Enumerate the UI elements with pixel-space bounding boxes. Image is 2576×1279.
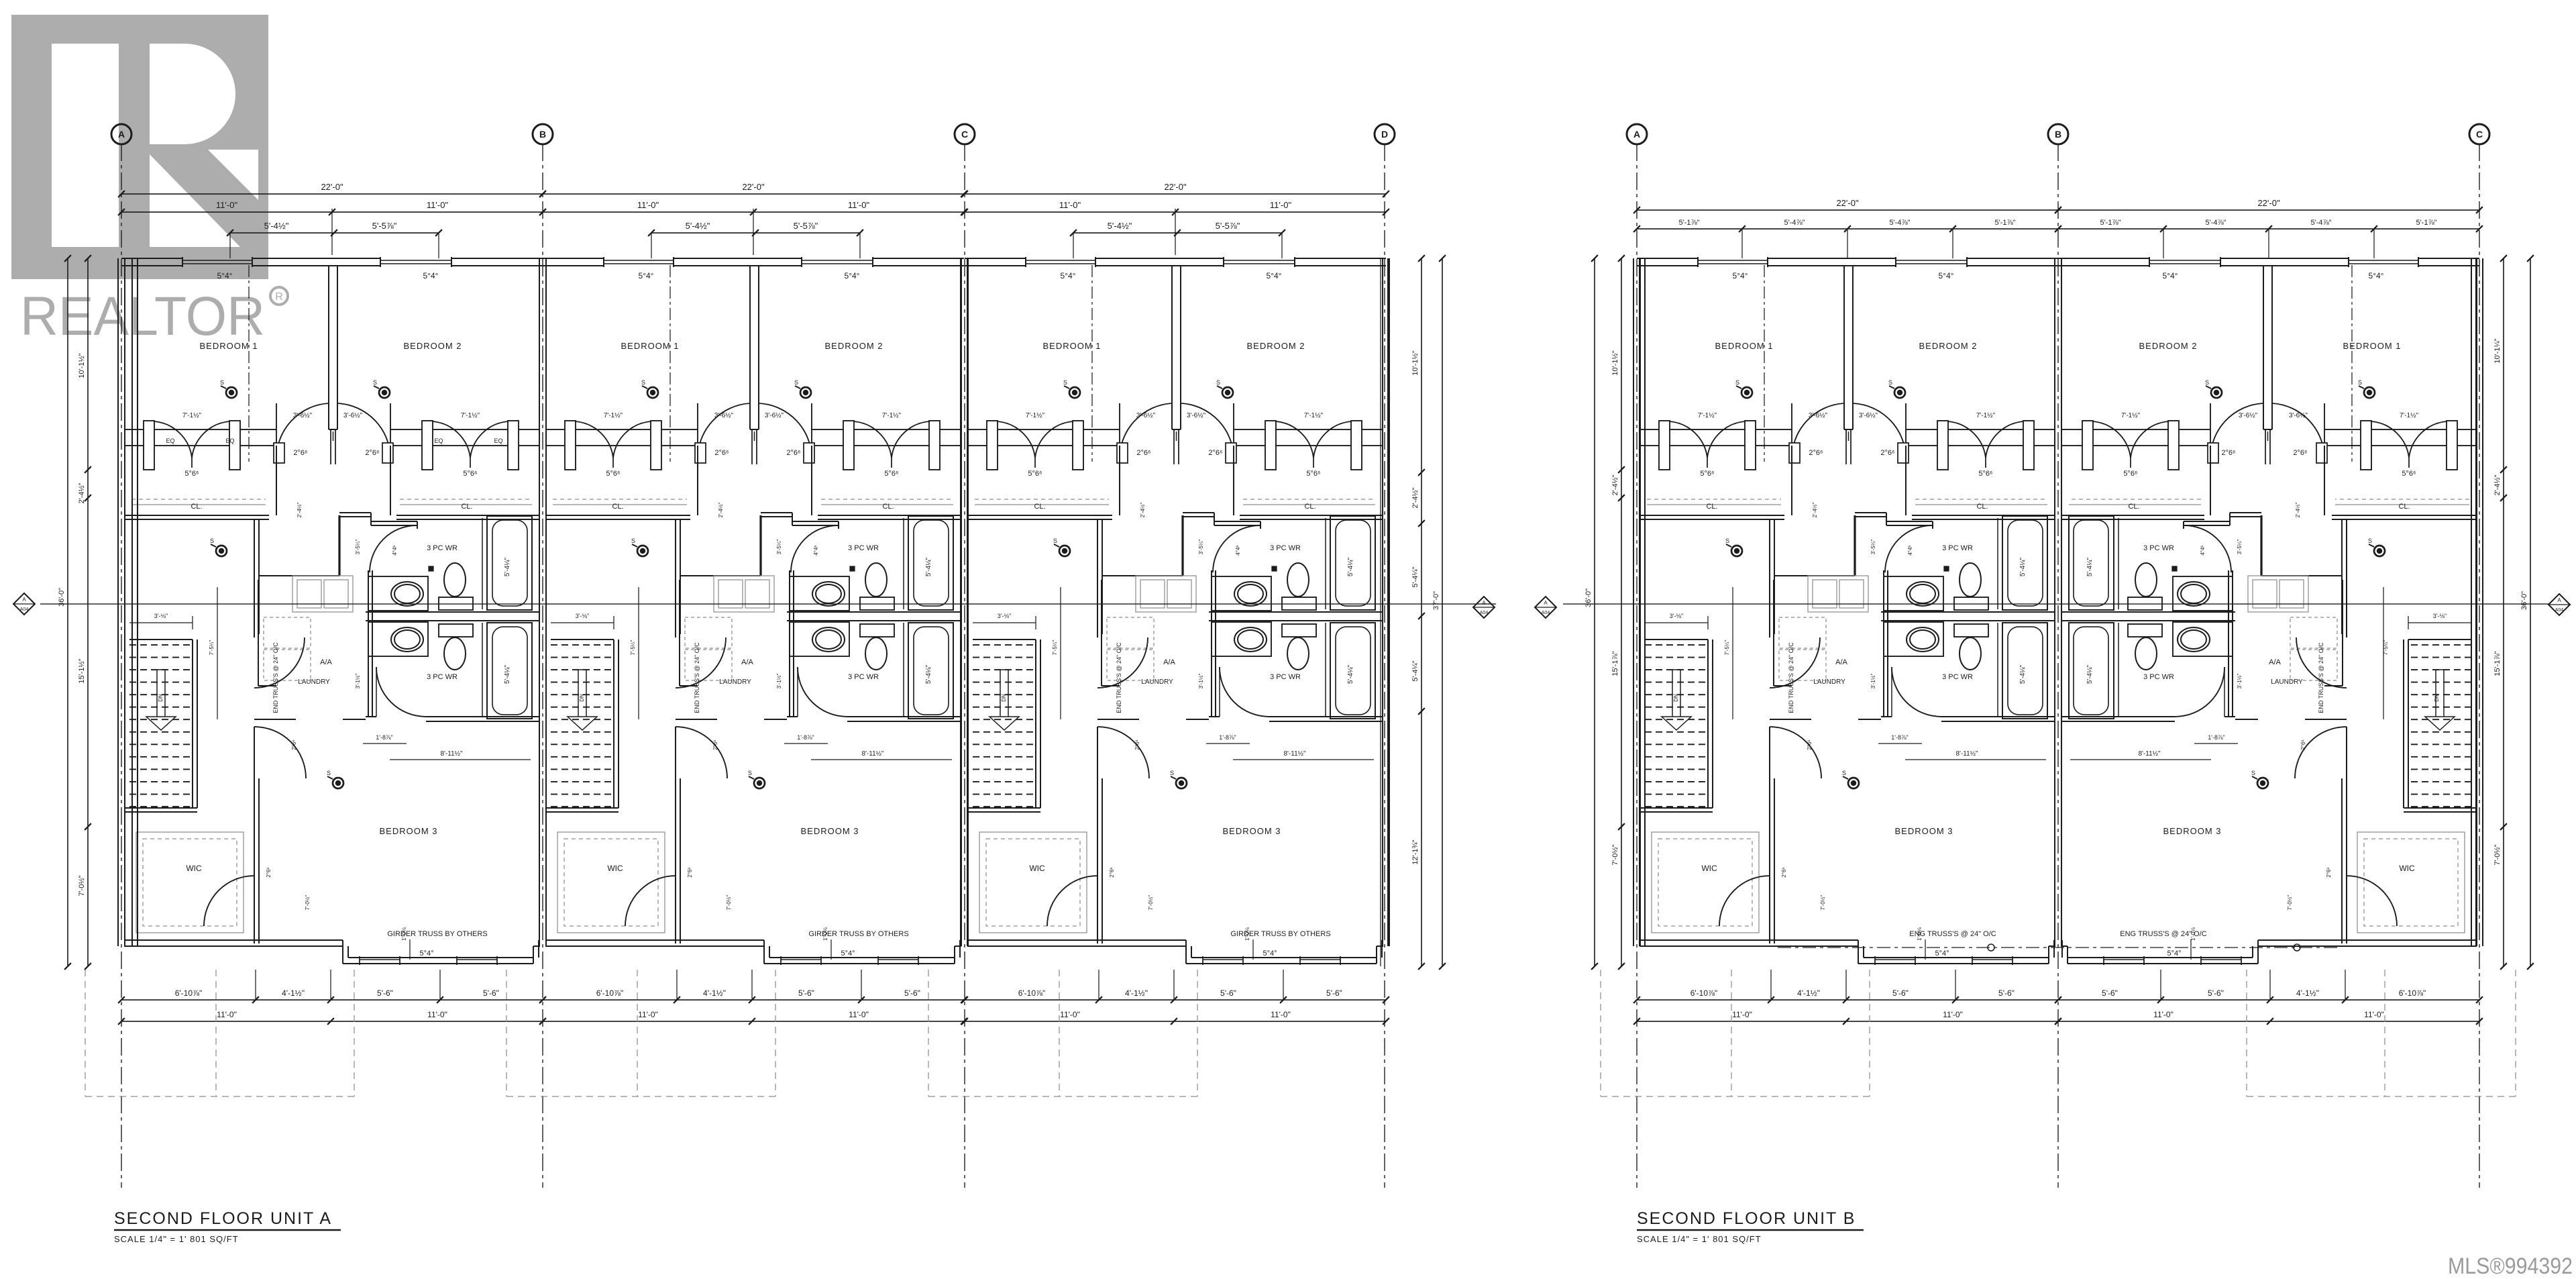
section line plan A (40, 603, 1496, 605)
svg-text:2°6⁶: 2°6⁶ (687, 867, 693, 877)
svg-text:1'-8⅞": 1'-8⅞" (2208, 734, 2224, 741)
svg-text:5'-4½": 5'-4½" (264, 221, 289, 231)
svg-text:11'-0": 11'-0" (848, 200, 870, 210)
svg-text:BEDROOM 3: BEDROOM 3 (2163, 826, 2221, 836)
svg-text:5°6⁶: 5°6⁶ (2402, 470, 2416, 478)
svg-text:5'-4½": 5'-4½" (686, 221, 710, 231)
svg-text:5'-1⅞": 5'-1⅞" (1678, 219, 1699, 227)
svg-text:CL.: CL. (461, 503, 472, 511)
svg-text:WIC: WIC (607, 864, 623, 873)
unit at x=1438 mirror=False (961, 258, 962, 946)
svg-text:5'-4¼": 5'-4¼" (1346, 557, 1354, 576)
svg-text:BEDROOM 3: BEDROOM 3 (800, 826, 859, 836)
svg-text:5'-4¼": 5'-4¼" (2086, 557, 2094, 576)
svg-text:S: S (220, 379, 224, 386)
svg-text:5'-4¼": 5'-4¼" (924, 557, 932, 576)
svg-text:4°4⁶: 4°4⁶ (2200, 545, 2206, 555)
svg-text:S: S (1735, 379, 1739, 386)
svg-text:7'-5¼": 7'-5¼" (209, 640, 215, 656)
svg-text:S: S (2358, 379, 2362, 386)
svg-text:A04: A04 (2555, 608, 2564, 613)
svg-text:A/A: A/A (1163, 658, 1175, 666)
svg-text:11'-0": 11'-0" (2364, 1010, 2384, 1019)
svg-text:2'-4½": 2'-4½" (2295, 503, 2301, 518)
svg-text:11'-0": 11'-0" (637, 200, 659, 210)
svg-text:15'-1⅞": 15'-1⅞" (2493, 651, 2502, 676)
svg-text:A04: A04 (20, 607, 29, 612)
svg-text:5'-6": 5'-6" (798, 988, 814, 998)
unit at x=3696 mirror=True (2475, 258, 2477, 946)
svg-text:S: S (748, 770, 752, 776)
grid bubble B (2048, 124, 2068, 144)
svg-text:1'-8⅞": 1'-8⅞" (1891, 734, 1908, 741)
svg-text:3'-5¼": 3'-5¼" (776, 540, 782, 555)
svg-text:EQ: EQ (434, 438, 443, 444)
svg-text:7'-1½": 7'-1½" (2121, 412, 2141, 419)
svg-text:5'-4¼": 5'-4¼" (1411, 660, 1419, 681)
svg-text:1'-8⅞": 1'-8⅞" (376, 734, 392, 741)
svg-text:3'-6½": 3'-6½" (765, 412, 784, 419)
svg-text:4'-1½": 4'-1½" (1125, 988, 1148, 998)
svg-text:3'-6½": 3'-6½" (1809, 412, 1828, 419)
svg-text:LAUNDRY: LAUNDRY (1141, 678, 1173, 686)
section marker (1535, 597, 1556, 618)
svg-text:A/A: A/A (320, 658, 332, 666)
svg-text:10'-1¼": 10'-1¼" (2493, 338, 2502, 363)
svg-text:5'-4⅞": 5'-4⅞" (1784, 219, 1805, 227)
svg-text:LAUNDRY: LAUNDRY (1813, 678, 1845, 686)
svg-text:5°6⁶: 5°6⁶ (463, 470, 477, 478)
svg-text:3 PC WR: 3 PC WR (848, 544, 879, 552)
svg-text:3 PC WR: 3 PC WR (1942, 544, 1973, 552)
svg-text:MLS®994392: MLS®994392 (2448, 1254, 2573, 1279)
svg-text:5°4°: 5°4° (845, 271, 860, 280)
svg-text:8'-11½": 8'-11½" (2138, 750, 2161, 758)
svg-text:5'-1⅞": 5'-1⅞" (1994, 219, 2015, 227)
svg-text:5'-6": 5'-6" (2102, 988, 2118, 998)
svg-text:7'-1½": 7'-1½" (1304, 412, 1324, 419)
svg-text:5'-4¼": 5'-4¼" (2019, 557, 2027, 576)
svg-text:DN: DN (158, 694, 164, 702)
svg-text:7'-0½": 7'-0½" (2493, 844, 2502, 865)
svg-text:10'-1½": 10'-1½" (1611, 350, 1619, 375)
svg-text:1'-0⅛: 1'-0⅛ (1244, 927, 1250, 941)
svg-text:5°6⁶: 5°6⁶ (1700, 470, 1714, 478)
svg-text:11'-0": 11'-0" (1060, 1010, 1080, 1019)
svg-text:3 PC WR: 3 PC WR (2143, 544, 2174, 552)
svg-text:5'-6": 5'-6" (483, 988, 499, 998)
svg-text:5'-6": 5'-6" (904, 988, 920, 998)
svg-text:37'-0": 37'-0" (1432, 591, 1440, 610)
svg-text:11'-0": 11'-0" (638, 1010, 658, 1019)
svg-text:2'-4½": 2'-4½" (78, 482, 86, 503)
svg-text:5°4°: 5°4° (419, 950, 433, 958)
svg-text:5°6⁶: 5°6⁶ (184, 470, 199, 478)
svg-text:CL.: CL. (2128, 503, 2139, 511)
svg-text:3'-1½": 3'-1½" (776, 674, 782, 689)
svg-text:A: A (1482, 600, 1486, 606)
svg-text:5'-4½": 5'-4½" (1108, 221, 1132, 231)
svg-text:8'-11½": 8'-11½" (1955, 750, 1978, 758)
svg-text:5°4°: 5°4° (1061, 271, 1076, 280)
svg-text:7'-0½": 7'-0½" (1820, 895, 1826, 911)
svg-text:A04: A04 (1542, 611, 1550, 615)
svg-text:A/A: A/A (1835, 658, 1847, 666)
svg-text:2°6⁶: 2°6⁶ (1134, 739, 1140, 750)
svg-text:S: S (1842, 770, 1846, 776)
svg-text:7'-1½": 7'-1½" (1698, 412, 1717, 419)
svg-text:11'-0": 11'-0" (427, 200, 449, 210)
svg-text:5°6⁶: 5°6⁶ (1978, 470, 1992, 478)
svg-text:CL.: CL. (1976, 503, 1988, 511)
svg-text:11'-0": 11'-0" (216, 200, 238, 210)
svg-text:D: D (1381, 129, 1388, 140)
svg-text:36'-0": 36'-0" (2520, 591, 2528, 610)
svg-text:BEDROOM 2: BEDROOM 2 (1919, 341, 1977, 351)
svg-text:22'-0": 22'-0" (742, 182, 765, 192)
grid bubble A (111, 124, 131, 144)
svg-text:S: S (327, 770, 331, 776)
svg-text:LAUNDRY: LAUNDRY (298, 678, 330, 686)
watermark REALTOR logo block (11, 15, 268, 279)
svg-text:S: S (1216, 379, 1220, 386)
svg-text:11'-0": 11'-0" (217, 1010, 237, 1019)
svg-text:7'-5¼": 7'-5¼" (630, 640, 636, 656)
svg-text:10'-1½": 10'-1½" (78, 353, 86, 378)
svg-text:3'-6½": 3'-6½" (2289, 412, 2308, 419)
svg-text:2'-4½": 2'-4½" (718, 503, 724, 518)
svg-text:A/A: A/A (741, 658, 753, 666)
svg-text:5°4°: 5°4° (1935, 950, 1949, 958)
grid bubble D (1375, 124, 1395, 144)
svg-text:4°4⁶: 4°4⁶ (392, 545, 398, 555)
svg-text:3'-⅛": 3'-⅛" (154, 613, 168, 619)
svg-text:DN: DN (2434, 694, 2440, 702)
svg-text:36'-0": 36'-0" (1585, 589, 1593, 607)
svg-text:7'-1½": 7'-1½" (1976, 412, 1996, 419)
svg-text:2°6⁶: 2°6⁶ (786, 449, 800, 457)
unit at x=2440 mirror=False (1633, 258, 1634, 946)
svg-text:5°4°: 5°4° (2167, 950, 2181, 958)
svg-text:3'-1½": 3'-1½" (2237, 674, 2243, 689)
svg-text:3'-6½": 3'-6½" (293, 412, 313, 419)
svg-text:3'-5¼": 3'-5¼" (1198, 540, 1204, 555)
svg-text:S: S (631, 538, 635, 544)
svg-text:5'-4⅞": 5'-4⅞" (2205, 219, 2226, 227)
svg-text:B: B (539, 129, 546, 140)
svg-text:CL.: CL. (612, 503, 623, 511)
svg-text:5°6⁶: 5°6⁶ (1306, 470, 1320, 478)
svg-text:5°4°: 5°4° (1733, 271, 1748, 280)
svg-text:WIC: WIC (1701, 864, 1717, 873)
svg-text:A: A (1633, 129, 1640, 140)
svg-text:3'-⅛": 3'-⅛" (576, 613, 589, 619)
svg-text:S: S (1053, 538, 1057, 544)
svg-text:EQ: EQ (166, 438, 174, 444)
svg-text:2°6⁶: 2°6⁶ (1208, 449, 1222, 457)
svg-text:10'-1½": 10'-1½" (1411, 350, 1419, 375)
svg-text:2°6⁶: 2°6⁶ (2221, 449, 2235, 457)
svg-text:CL.: CL. (191, 503, 202, 511)
svg-text:11'-0": 11'-0" (427, 1010, 447, 1019)
svg-text:C: C (2476, 129, 2483, 140)
svg-text:5'-4¼": 5'-4¼" (1411, 566, 1419, 587)
svg-text:3'-5¼": 3'-5¼" (355, 540, 361, 555)
svg-text:3'-1½": 3'-1½" (355, 674, 361, 689)
svg-text:11'-0": 11'-0" (849, 1010, 869, 1019)
svg-text:2°6⁶: 2°6⁶ (365, 449, 379, 457)
svg-text:END TRUSS'S @ 24" O/C: END TRUSS'S @ 24" O/C (1788, 642, 1794, 713)
svg-text:A04: A04 (1480, 611, 1489, 615)
svg-text:22'-0": 22'-0" (2257, 198, 2280, 208)
svg-text:15'-1½": 15'-1½" (78, 658, 86, 683)
svg-text:11'-0": 11'-0" (1270, 200, 1292, 210)
grid bubble B (533, 124, 553, 144)
svg-text:6'-10⅞": 6'-10⅞" (175, 988, 203, 998)
svg-text:5'-6": 5'-6" (2208, 988, 2224, 998)
svg-text:SCALE 1/4" = 1' 801 SQ/FT: SCALE 1/4" = 1' 801 SQ/FT (114, 1234, 239, 1244)
svg-text:3'-⅛": 3'-⅛" (1670, 613, 1683, 619)
svg-text:BEDROOM 3: BEDROOM 3 (379, 826, 437, 836)
svg-text:2'-4½": 2'-4½" (1812, 503, 1818, 518)
svg-text:7'-0½": 7'-0½" (1611, 844, 1619, 865)
svg-text:5'-4¼": 5'-4¼" (1346, 664, 1354, 684)
svg-text:SCALE 1/4" = 1' 801 SQ/FT: SCALE 1/4" = 1' 801 SQ/FT (1637, 1234, 1762, 1244)
svg-text:5°4°: 5°4° (423, 271, 439, 280)
svg-text:A/A: A/A (2269, 658, 2281, 666)
svg-text:5'-4¼": 5'-4¼" (2086, 664, 2094, 684)
svg-text:5°6⁶: 5°6⁶ (2123, 470, 2137, 478)
svg-text:7'-0½": 7'-0½" (1148, 895, 1154, 911)
svg-text:DN: DN (1673, 694, 1679, 702)
svg-text:5°4°: 5°4° (841, 950, 855, 958)
svg-text:22'-0": 22'-0" (321, 182, 343, 192)
svg-text:2°6⁶: 2°6⁶ (266, 867, 272, 877)
svg-text:4'-1½": 4'-1½" (703, 988, 726, 998)
grid bubble A (1627, 124, 1647, 144)
svg-text:3 PC WR: 3 PC WR (1270, 544, 1301, 552)
svg-text:LAUNDRY: LAUNDRY (2271, 678, 2303, 686)
svg-text:5'-5⅞": 5'-5⅞" (794, 221, 818, 231)
svg-text:S: S (2368, 538, 2372, 544)
unit at x=809 mirror=False (539, 258, 540, 946)
svg-text:11'-0": 11'-0" (1059, 200, 1081, 210)
svg-text:5°6⁶: 5°6⁶ (884, 470, 898, 478)
svg-text:7'-1½": 7'-1½" (461, 412, 480, 419)
svg-text:B: B (2055, 129, 2061, 140)
svg-text:1'-0⅛: 1'-0⅛ (2190, 927, 2196, 941)
svg-text:4°4⁶: 4°4⁶ (1907, 545, 1913, 555)
svg-text:6'-10⅞": 6'-10⅞" (596, 988, 624, 998)
svg-text:3'-6½": 3'-6½" (2239, 412, 2258, 419)
svg-text:S: S (1888, 379, 1892, 386)
svg-text:5°4°: 5°4° (1939, 271, 1954, 280)
svg-text:22'-0": 22'-0" (1164, 182, 1187, 192)
svg-text:2°6⁶: 2°6⁶ (2293, 449, 2307, 457)
svg-text:5'-5⅞": 5'-5⅞" (372, 221, 397, 231)
svg-text:3 PC WR: 3 PC WR (1942, 673, 1973, 681)
svg-text:5'-4⅞": 5'-4⅞" (2310, 219, 2331, 227)
svg-text:5'-4¼": 5'-4¼" (2019, 664, 2027, 684)
svg-text:END TRUSS'S @ 24" O/C: END TRUSS'S @ 24" O/C (272, 642, 279, 713)
svg-text:S: S (794, 379, 798, 386)
svg-text:5°4°: 5°4° (2369, 271, 2384, 280)
svg-text:5'-5⅞": 5'-5⅞" (1216, 221, 1240, 231)
svg-text:1'-8⅞": 1'-8⅞" (1219, 734, 1236, 741)
svg-text:3 PC WR: 3 PC WR (1270, 673, 1301, 681)
svg-text:CL.: CL. (1304, 503, 1316, 511)
svg-text:2'-4½": 2'-4½" (2493, 474, 2502, 495)
svg-text:1'-0⅛: 1'-0⅛ (401, 927, 407, 941)
svg-text:A: A (2557, 597, 2561, 603)
svg-text:2°6⁶: 2°6⁶ (291, 739, 297, 750)
svg-text:8'-11½": 8'-11½" (1283, 750, 1306, 758)
svg-text:4°4⁶: 4°4⁶ (813, 545, 819, 555)
svg-text:S: S (373, 379, 377, 386)
svg-text:2'-4½": 2'-4½" (297, 503, 303, 518)
svg-text:1'-0⅛: 1'-0⅛ (822, 927, 828, 941)
svg-text:3'-6½": 3'-6½" (343, 412, 363, 419)
svg-text:5'-4⅞": 5'-4⅞" (1889, 219, 1910, 227)
svg-text:SECOND FLOOR UNIT A: SECOND FLOOR UNIT A (114, 1209, 332, 1228)
grid bubble C (2469, 124, 2489, 144)
svg-text:CL.: CL. (882, 503, 894, 511)
svg-text:7'-1½": 7'-1½" (604, 412, 623, 419)
svg-text:WIC: WIC (1029, 864, 1045, 873)
svg-text:3'-5¼": 3'-5¼" (1870, 540, 1876, 555)
svg-text:22'-0": 22'-0" (1836, 198, 1859, 208)
svg-text:11'-0": 11'-0" (1943, 1010, 1963, 1019)
svg-text:7'-1½": 7'-1½" (882, 412, 902, 419)
svg-text:EQ: EQ (494, 438, 502, 444)
svg-text:CL.: CL. (2398, 503, 2410, 511)
svg-text:5°6⁶: 5°6⁶ (606, 470, 620, 478)
svg-text:2°6⁶: 2°6⁶ (714, 449, 729, 457)
svg-text:2°6⁶: 2°6⁶ (293, 449, 307, 457)
svg-text:2°6⁶: 2°6⁶ (1807, 739, 1813, 750)
svg-text:11'-0": 11'-0" (2153, 1010, 2173, 1019)
svg-text:5°4°: 5°4° (639, 271, 654, 280)
svg-text:5'-6": 5'-6" (1998, 988, 2015, 998)
svg-text:2'-4½": 2'-4½" (1611, 474, 1619, 495)
svg-text:BEDROOM 3: BEDROOM 3 (1894, 826, 1953, 836)
svg-text:15'-1⅞": 15'-1⅞" (1611, 651, 1619, 676)
svg-text:3'-6½": 3'-6½" (1136, 412, 1156, 419)
svg-text:2°6⁶: 2°6⁶ (1809, 449, 1823, 457)
svg-text:3 PC WR: 3 PC WR (427, 544, 458, 552)
svg-text:2'-4½": 2'-4½" (1411, 487, 1419, 508)
svg-text:R: R (275, 291, 283, 303)
svg-text:4'-1½": 4'-1½" (282, 988, 305, 998)
svg-text:END TRUSS'S @ 24" O/C: END TRUSS'S @ 24" O/C (2318, 642, 2324, 713)
section marker (2548, 594, 2570, 615)
svg-text:5'-6": 5'-6" (1326, 988, 1342, 998)
svg-text:A: A (1544, 600, 1548, 606)
svg-text:C: C (961, 129, 968, 140)
svg-text:7'-0½": 7'-0½" (305, 895, 311, 911)
svg-text:2°6⁶: 2°6⁶ (1880, 449, 1894, 457)
svg-text:5°4°: 5°4° (217, 271, 233, 280)
svg-text:S: S (2251, 770, 2255, 776)
svg-text:BEDROOM 2: BEDROOM 2 (1246, 341, 1305, 351)
svg-text:2°6⁶: 2°6⁶ (1136, 449, 1150, 457)
svg-text:DN: DN (1001, 694, 1007, 702)
svg-text:2°6⁶: 2°6⁶ (1781, 867, 1787, 877)
svg-text:2°6⁶: 2°6⁶ (1109, 867, 1115, 877)
svg-text:BEDROOM 2: BEDROOM 2 (824, 341, 883, 351)
svg-text:CL.: CL. (1034, 503, 1045, 511)
svg-text:5'-6": 5'-6" (1220, 988, 1236, 998)
svg-text:S: S (210, 538, 214, 544)
svg-text:8'-11½": 8'-11½" (440, 750, 463, 758)
svg-text:S: S (1170, 770, 1174, 776)
svg-text:3'-5¼": 3'-5¼" (2237, 540, 2243, 555)
svg-text:6'-10⅞": 6'-10⅞" (1018, 988, 1046, 998)
svg-text:3'-1½": 3'-1½" (1198, 674, 1204, 689)
svg-text:4'-1½": 4'-1½" (1797, 988, 1820, 998)
svg-text:5°6⁶: 5°6⁶ (1028, 470, 1042, 478)
svg-text:2°6⁶: 2°6⁶ (712, 739, 718, 750)
svg-text:7'-0½": 7'-0½" (78, 875, 86, 896)
svg-text:A: A (118, 129, 125, 140)
svg-text:7'-1½": 7'-1½" (2400, 412, 2419, 419)
svg-text:1'-8⅞": 1'-8⅞" (797, 734, 814, 741)
svg-text:7'-1½": 7'-1½" (182, 412, 202, 419)
grid bubble C (955, 124, 975, 144)
svg-text:WIC: WIC (186, 864, 202, 873)
svg-text:4°4⁶: 4°4⁶ (1235, 545, 1241, 555)
svg-text:3'-⅛": 3'-⅛" (2433, 613, 2447, 619)
svg-text:5'-4¼": 5'-4¼" (503, 664, 511, 684)
unit at x=181 mirror=False (117, 258, 119, 946)
svg-text:5°4°: 5°4° (1267, 271, 1282, 280)
svg-text:A: A (22, 597, 26, 603)
svg-text:S: S (1063, 379, 1067, 386)
svg-text:3'-6½": 3'-6½" (1187, 412, 1206, 419)
svg-text:2°6⁶: 2°6⁶ (2326, 867, 2332, 877)
svg-text:8'-11½": 8'-11½" (861, 750, 884, 758)
section line plan B (1563, 603, 2549, 605)
svg-text:5°4°: 5°4° (1263, 950, 1277, 958)
svg-text:3'-⅛": 3'-⅛" (998, 613, 1011, 619)
svg-text:6'-10⅞": 6'-10⅞" (1690, 988, 1718, 998)
svg-text:7'-5¼": 7'-5¼" (2383, 640, 2389, 656)
svg-text:BEDROOM 3: BEDROOM 3 (1222, 826, 1281, 836)
svg-text:5'-4¼": 5'-4¼" (503, 557, 511, 576)
svg-text:BEDROOM 2: BEDROOM 2 (403, 341, 462, 351)
svg-text:5'-1⅞": 5'-1⅞" (2100, 219, 2121, 227)
svg-text:S: S (2205, 379, 2209, 386)
svg-text:S: S (1725, 538, 1729, 544)
svg-text:S: S (641, 379, 645, 386)
svg-text:CL.: CL. (1706, 503, 1717, 511)
svg-text:11'-0": 11'-0" (1732, 1010, 1752, 1019)
svg-text:7'-5¼": 7'-5¼" (1724, 640, 1730, 656)
svg-text:WIC: WIC (2399, 864, 2415, 873)
svg-text:7'-5¼": 7'-5¼" (1052, 640, 1058, 656)
svg-text:SECOND FLOOR UNIT B: SECOND FLOOR UNIT B (1637, 1209, 1856, 1228)
svg-text:LAUNDRY: LAUNDRY (719, 678, 751, 686)
svg-text:5'-6": 5'-6" (377, 988, 393, 998)
svg-text:2°6⁶: 2°6⁶ (2300, 739, 2306, 750)
svg-text:EQ: EQ (225, 438, 234, 444)
svg-text:11'-0": 11'-0" (1271, 1010, 1291, 1019)
svg-text:REALTOR: REALTOR (20, 286, 265, 347)
svg-text:BEDROOM 2: BEDROOM 2 (2139, 341, 2197, 351)
svg-text:1'-0⅛: 1'-0⅛ (1917, 927, 1923, 941)
svg-text:5'-1⅞": 5'-1⅞" (2416, 219, 2436, 227)
svg-text:7'-1½": 7'-1½" (1026, 412, 1045, 419)
